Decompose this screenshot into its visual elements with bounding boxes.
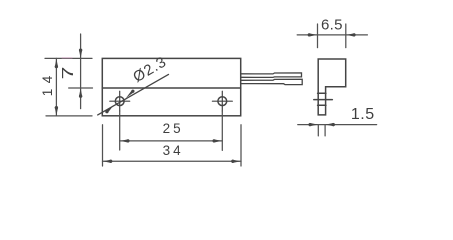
dimension line 34	[103, 160, 242, 162]
wire 1 outline	[241, 73, 301, 78]
side view tick 1	[318, 92, 326, 94]
svg-text:25: 25	[163, 121, 184, 136]
dimension line 7	[80, 34, 82, 109]
extension line 6.5 left	[317, 24, 319, 48]
extension line 6.5 right	[345, 24, 347, 48]
svg-text:6.5: 6.5	[321, 16, 343, 33]
arrow 14 top	[55, 59, 58, 68]
arrow 25 left	[120, 139, 129, 142]
hole centre extension line left	[119, 111, 121, 150]
arrow 14 bottom	[55, 107, 58, 116]
dimension line 25	[120, 140, 223, 142]
extension line top left	[45, 57, 92, 59]
hole right crosshair	[212, 100, 232, 102]
arrow 34 left	[103, 160, 112, 163]
svg-text:1.5: 1.5	[351, 106, 375, 123]
arrow 1.5 right (outside pointing left)	[325, 123, 334, 126]
hole centre extension line right	[221, 111, 223, 150]
arrow 6.5 left (outside pointing right)	[309, 33, 318, 36]
arrow leader upper (pointing at circle down-left)	[126, 90, 134, 98]
extension line 1.5 left	[317, 125, 319, 136]
arrow 1.5 left (outside pointing right)	[309, 123, 318, 126]
extension line 34 left	[102, 125, 104, 166]
wire 2 outline	[241, 79, 302, 84]
body inner step line	[102, 87, 240, 89]
leader line dia 2.3	[98, 74, 169, 115]
svg-text:7: 7	[60, 67, 78, 80]
extension line 34 right	[240, 125, 242, 166]
extension line mid left (7)	[69, 87, 93, 89]
hole left crosshair	[110, 100, 130, 102]
arrow 25 right	[213, 139, 222, 142]
arrow 34 right	[232, 160, 241, 163]
side view tick 2 long	[314, 99, 333, 101]
side view tick 3	[318, 104, 326, 106]
body outline front view	[102, 58, 240, 115]
side view profile	[318, 59, 346, 115]
dimension line 14	[55, 58, 57, 116]
arrow leader lower (pointing at circle up-right)	[106, 105, 114, 113]
svg-text:34: 34	[163, 143, 184, 158]
hole right circle	[218, 97, 227, 106]
arrow 6.5 right (outside pointing left)	[346, 33, 355, 36]
svg-text:14: 14	[40, 70, 55, 96]
pink artifact segment	[62, 57, 72, 59]
dimension line 1.5	[298, 124, 377, 126]
hole left circle	[115, 97, 124, 106]
extension line bottom left (14)	[46, 115, 92, 117]
arrow 7 bottom (outside, pointing up)	[79, 88, 82, 97]
dimension line 6.5	[297, 34, 367, 36]
extension line 1.5 right	[324, 125, 326, 136]
arrow 7 top (outside, pointing down)	[79, 50, 82, 59]
